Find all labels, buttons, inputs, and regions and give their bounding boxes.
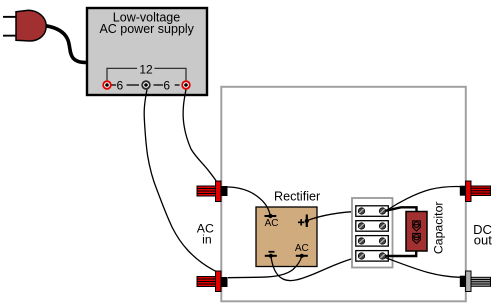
- svg-text:AC: AC: [265, 218, 279, 229]
- svg-text:out: out: [474, 233, 492, 248]
- svg-text:Capacitor: Capacitor: [432, 201, 446, 254]
- svg-text:in: in: [202, 232, 212, 246]
- svg-text:6: 6: [163, 78, 170, 92]
- svg-text:Rectifier: Rectifier: [274, 190, 320, 204]
- svg-text:AC power supply: AC power supply: [99, 22, 194, 36]
- svg-text:12: 12: [139, 63, 153, 77]
- svg-text:AC: AC: [295, 243, 309, 254]
- svg-text:6: 6: [116, 78, 123, 92]
